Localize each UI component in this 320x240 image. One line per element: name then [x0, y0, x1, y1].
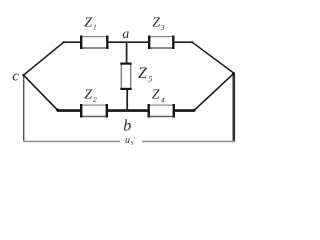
source label u s [125, 135, 136, 147]
wire top row middle segment through node a [107, 41, 150, 43]
svg-text:Z: Z [152, 88, 160, 103]
svg-text:Z: Z [138, 65, 148, 82]
wire left vertical c down to source loop [23, 75, 25, 141]
svg-text:Z: Z [84, 88, 92, 103]
svg-text:c: c [12, 69, 19, 85]
label Z2 [84, 88, 97, 105]
impedance Z2 [80, 104, 108, 118]
svg-text:Z: Z [152, 16, 160, 31]
junction bottom-left wire elbow [56, 108, 59, 111]
label Z3 [152, 16, 165, 33]
junction at node c [22, 74, 25, 77]
wire top-left diagonal c to top row [24, 42, 64, 75]
label Z5 [138, 65, 152, 84]
junction top-right wire elbow [191, 41, 193, 43]
wire source loop bottom left segment [23, 140, 120, 142]
wire top row left segment [64, 41, 82, 43]
junction at node d right [232, 72, 235, 75]
wire bottom row left segment [57, 109, 82, 112]
wire right vertical d down to source loop [233, 73, 236, 142]
svg-text:Z: Z [84, 16, 92, 31]
svg-text:3: 3 [160, 23, 165, 32]
svg-text:u: u [125, 135, 130, 146]
wire source loop bottom right segment [142, 140, 235, 142]
impedance Z3 [148, 36, 175, 50]
svg-text:2: 2 [93, 95, 97, 104]
wire top row right segment [173, 41, 193, 43]
wire bottom-left diagonal c to bottom row [24, 75, 58, 110]
wire bottom row right segment [174, 109, 195, 112]
impedance Z4 [148, 104, 176, 118]
wire top-right diagonal to node d [192, 42, 233, 73]
label Z1 [84, 16, 97, 32]
wire Z5 to node b [126, 89, 128, 111]
junction top-left wire elbow [63, 41, 65, 43]
impedance Z5 [120, 63, 131, 91]
impedance Z1 [80, 36, 109, 50]
svg-text:1: 1 [93, 23, 97, 32]
wire node a to Z5 [126, 42, 128, 63]
svg-text:a: a [122, 27, 129, 42]
svg-text:4: 4 [161, 96, 165, 105]
wire bottom row middle segment through node b [107, 109, 150, 112]
svg-text:5: 5 [148, 75, 152, 84]
label Z4 [152, 88, 165, 105]
svg-text:b: b [123, 118, 131, 135]
junction bottom-right wire elbow [193, 109, 196, 112]
wire bottom-right diagonal to node d [194, 74, 233, 111]
